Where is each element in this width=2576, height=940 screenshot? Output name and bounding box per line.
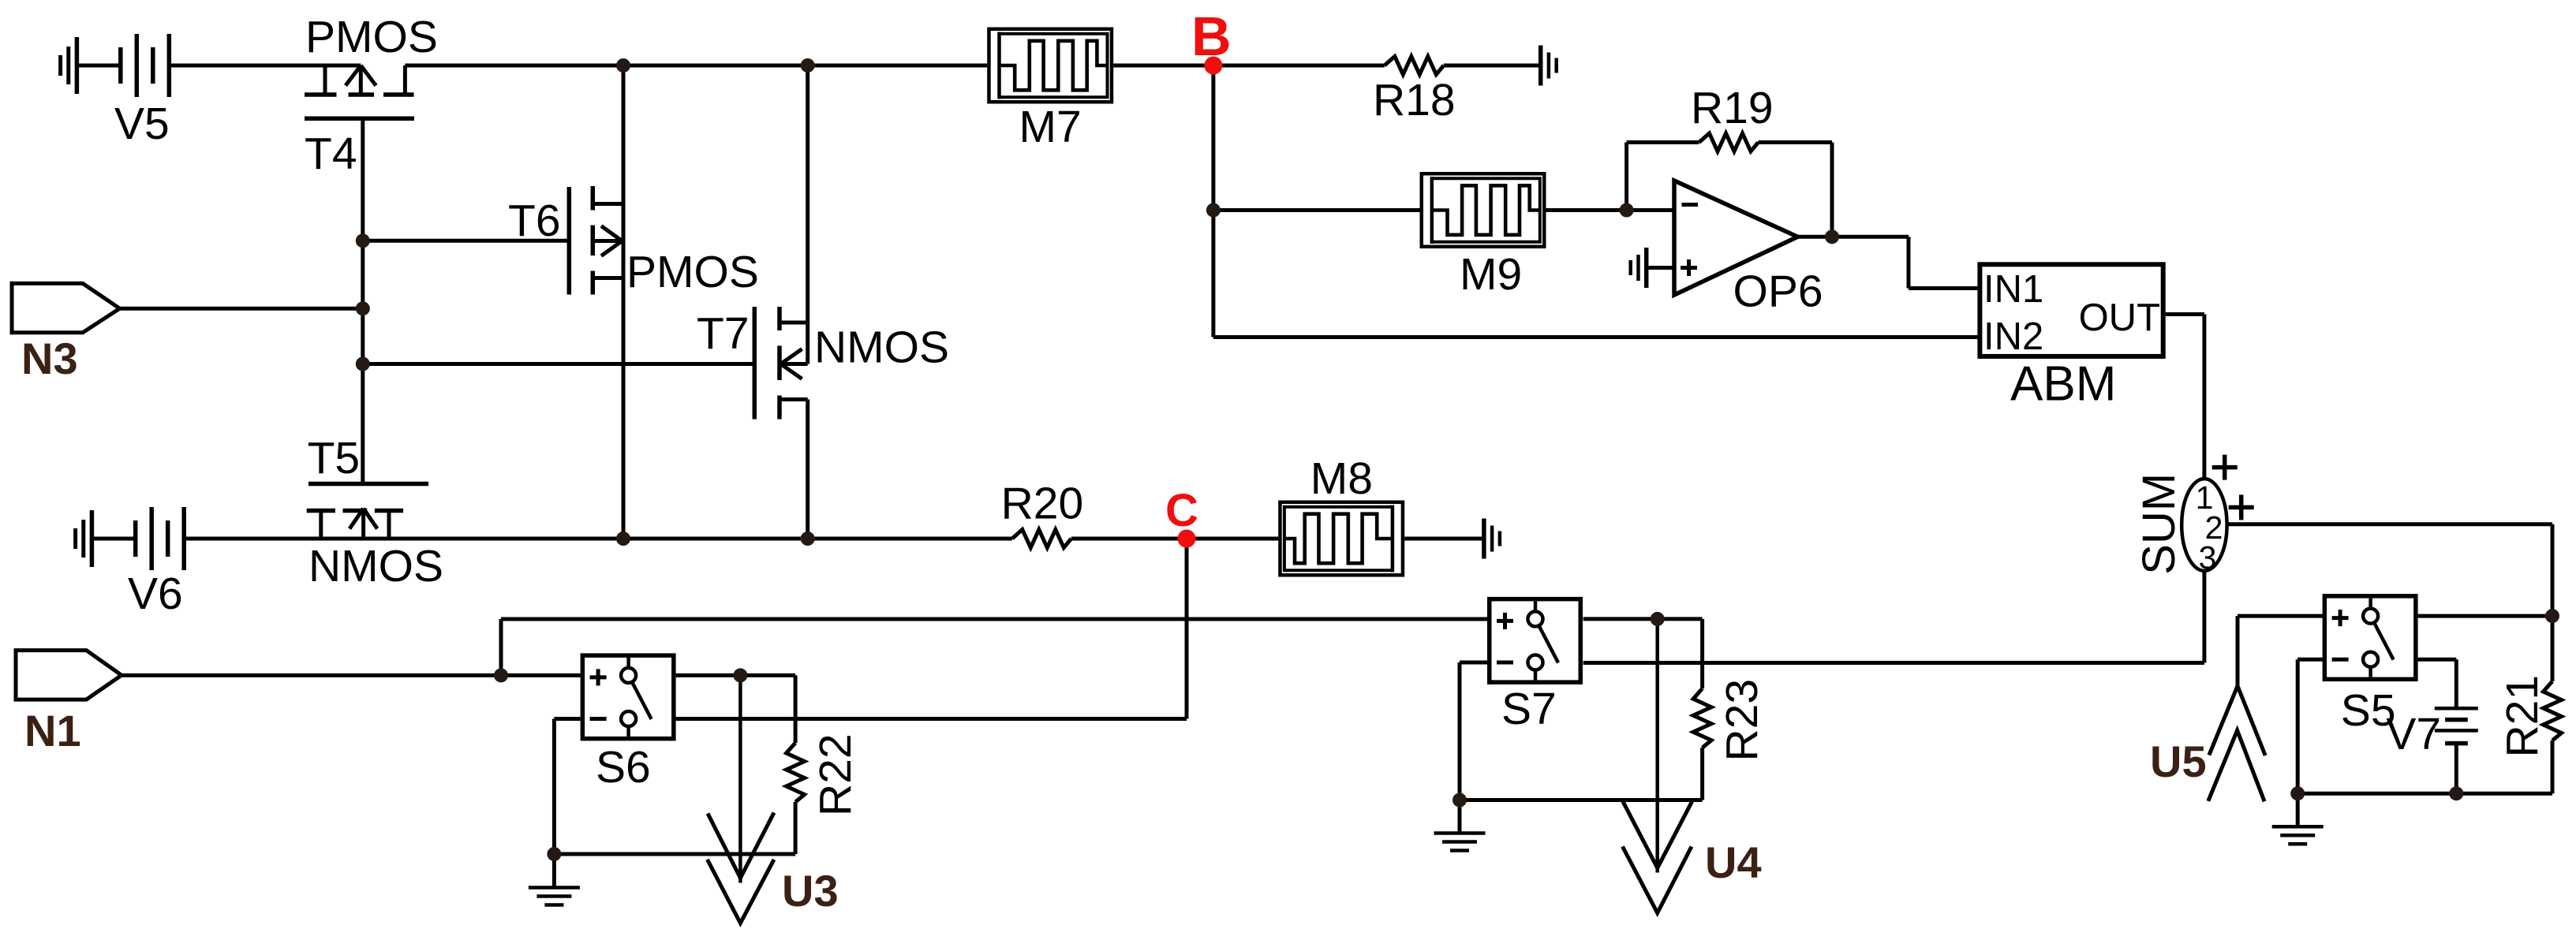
svg-text:S7: S7 [1501,684,1557,734]
svg-text:PMOS: PMOS [626,247,759,297]
svg-text:N3: N3 [21,334,78,383]
svg-text:NMOS: NMOS [308,541,443,591]
svg-text:M8: M8 [1310,453,1373,504]
svg-text:T4: T4 [305,129,357,179]
svg-text:3: 3 [2199,539,2217,576]
svg-text:R22: R22 [810,733,861,816]
svg-text:C: C [1165,485,1198,536]
svg-text:R21: R21 [2497,675,2548,758]
svg-text:SUM: SUM [2133,473,2185,575]
svg-text:R23: R23 [1717,679,1767,762]
svg-text:S6: S6 [596,742,651,793]
svg-text:NMOS: NMOS [814,323,949,373]
svg-text:R18: R18 [1373,75,1456,125]
svg-text:T7: T7 [697,308,750,359]
svg-text:V5: V5 [114,99,170,149]
svg-text:IN2: IN2 [1983,315,2043,358]
svg-text:T5: T5 [308,433,361,483]
svg-text:V6: V6 [128,569,183,619]
svg-text:OUT: OUT [2079,297,2160,339]
svg-text:IN1: IN1 [1983,268,2043,311]
svg-text:OP6: OP6 [1733,266,1823,316]
svg-text:U3: U3 [782,866,839,916]
svg-text:U4: U4 [1705,837,1762,887]
svg-text:V7: V7 [2386,709,2441,759]
svg-text:M9: M9 [1460,249,1522,300]
svg-text:N1: N1 [24,706,81,755]
svg-text:U5: U5 [2150,737,2207,786]
svg-text:PMOS: PMOS [305,12,438,62]
svg-text:T6: T6 [508,196,561,246]
svg-text:ABM: ABM [2010,357,2116,412]
svg-text:R20: R20 [1001,478,1084,528]
svg-text:M7: M7 [1019,102,1082,152]
svg-text:R19: R19 [1691,83,1774,133]
